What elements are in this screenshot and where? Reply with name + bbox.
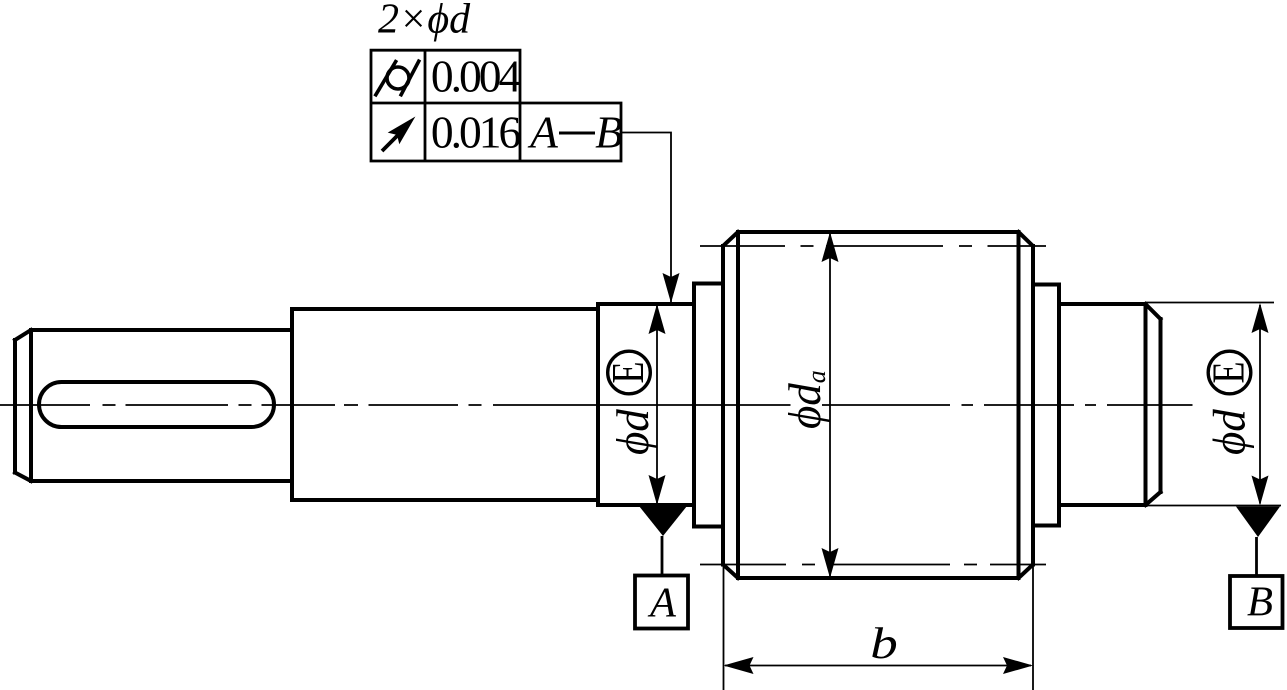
svg-text:0.016: 0.016 — [431, 107, 521, 158]
svg-text:B: B — [595, 107, 623, 158]
svg-text:ϕd: ϕd — [608, 409, 658, 455]
svg-text:0.004: 0.004 — [431, 51, 522, 102]
svg-text:A: A — [527, 107, 558, 158]
svg-text:b: b — [870, 619, 898, 668]
svg-text:A: A — [647, 580, 677, 627]
svg-text:B: B — [1247, 579, 1273, 626]
svg-text:ϕd: ϕd — [1205, 409, 1255, 455]
svg-text:E: E — [1203, 362, 1254, 384]
svg-text:E: E — [602, 362, 653, 384]
svg-text:2×ϕd: 2×ϕd — [378, 0, 471, 43]
